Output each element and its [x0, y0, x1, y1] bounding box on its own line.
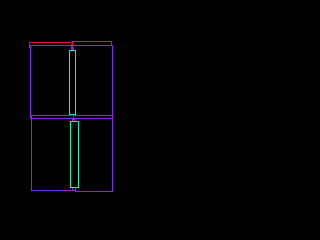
red divider left corner stub	[31, 116, 32, 118]
red divider line	[31, 115, 113, 116]
purple divider line	[30, 118, 113, 119]
red center connector stub upper	[72, 41, 73, 46]
purple bottom edge left segment	[31, 190, 75, 191]
green bar upper (hollow)	[69, 50, 76, 115]
red highlight box top edge right segment	[72, 41, 112, 42]
red dot beside connector	[73, 48, 74, 50]
purple bottom edge right segment	[75, 191, 113, 192]
red highlight box top edge left segment	[29, 42, 71, 43]
purple outer box left edge lower	[31, 119, 32, 191]
black gap in red divider	[71, 115, 73, 116]
red left corner stub	[29, 42, 30, 48]
purple center connector stub mid	[72, 119, 73, 121]
red center connector stub mid 2	[74, 119, 75, 121]
purple bottom connector stub B	[75, 188, 76, 191]
purple bottom connector stub A	[72, 188, 73, 190]
red center connector stub mid	[73, 115, 74, 120]
purple outer box top edge	[30, 45, 113, 46]
purple outer box right edge	[112, 45, 113, 192]
purple outer box left edge upper	[30, 45, 31, 119]
green bar lower (hollow)	[70, 121, 79, 188]
red step overlap block	[72, 41, 74, 43]
purple center connector stub upper	[71, 44, 73, 50]
red right corner stub	[111, 41, 112, 46]
